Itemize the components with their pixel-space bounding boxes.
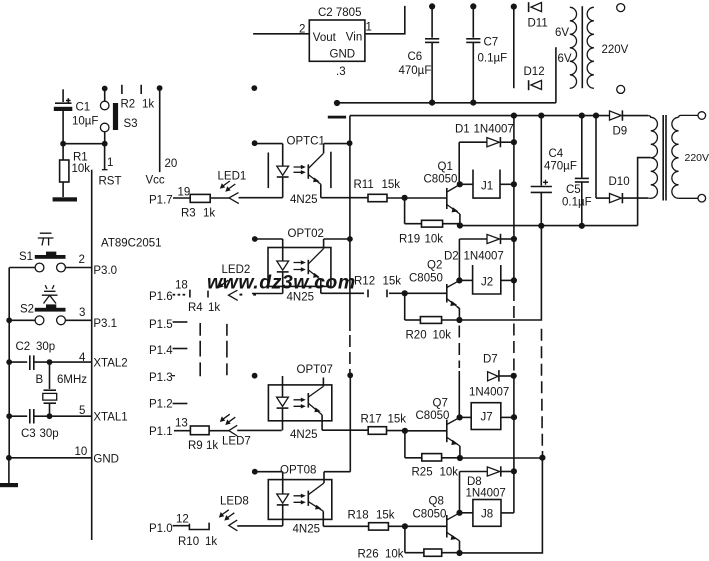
node Q2 emitter rail xyxy=(456,317,462,323)
op-amp IC 7805 regulator xyxy=(299,7,372,78)
svg-text:Vin: Vin xyxy=(346,32,362,44)
capacitor C6 470uF xyxy=(399,6,440,102)
node rail dot x514 xyxy=(511,113,517,119)
diode D7 1N4007 xyxy=(469,354,514,399)
diode D11 xyxy=(528,2,548,29)
svg-text:10k: 10k xyxy=(433,330,452,342)
wire x542 solid down to bottom rail xyxy=(460,458,543,553)
node Q8 collector / J8 left xyxy=(456,510,462,516)
wire bus B dashed middle xyxy=(349,335,351,374)
svg-text:LED1: LED1 xyxy=(218,171,247,183)
LED LED2 xyxy=(218,264,250,300)
svg-text:R12: R12 xyxy=(354,276,375,288)
svg-text:J7: J7 xyxy=(481,412,493,424)
node Q2 collector / J2 left xyxy=(456,277,462,283)
text P1.4 stub xyxy=(149,345,187,357)
resistor R18 15k xyxy=(348,510,405,531)
resistor R26 10k xyxy=(358,526,460,560)
wire P1.6 dotted remnants xyxy=(173,294,186,296)
node Q7 base xyxy=(402,428,408,434)
svg-text:J1: J1 xyxy=(481,181,493,193)
svg-text:1: 1 xyxy=(366,22,372,34)
switch S3 xyxy=(100,89,137,144)
wire base to Q2 xyxy=(405,292,446,294)
node C3 left xyxy=(6,413,12,419)
node OPT02 collector to bus B xyxy=(347,236,353,242)
svg-text:1k: 1k xyxy=(206,440,218,452)
op-amp OPT02 optocoupler 4N25 xyxy=(255,228,364,304)
svg-text:Vcc: Vcc xyxy=(146,175,165,187)
op-amp OPTC1 optocoupler 4N25 xyxy=(255,136,368,207)
svg-text:18: 18 xyxy=(175,280,188,292)
svg-text:R2: R2 xyxy=(121,99,136,111)
wire LED2 to OPT02 xyxy=(252,293,283,295)
svg-text:15k: 15k xyxy=(382,179,401,191)
node crystal top xyxy=(47,359,53,365)
svg-text:P1.6: P1.6 xyxy=(149,291,173,303)
svg-text:C4: C4 xyxy=(549,148,564,160)
wire GND row to MCU pin 10 xyxy=(9,457,92,459)
node Q7 collector / J7 left xyxy=(457,414,463,420)
diode D8 1N4007 xyxy=(460,466,514,499)
node bus dot C6 xyxy=(429,100,435,106)
svg-text:10k: 10k xyxy=(440,467,459,479)
svg-text:www.dz3w.com: www.dz3w.com xyxy=(207,272,356,294)
svg-text:Q8: Q8 xyxy=(429,496,444,508)
svg-text:10: 10 xyxy=(75,446,88,458)
wire row3 ground rail xyxy=(460,457,543,459)
svg-text:R25: R25 xyxy=(412,467,433,479)
svg-text:R18: R18 xyxy=(348,510,369,522)
diode D12 xyxy=(524,66,545,90)
svg-text:C1: C1 xyxy=(76,102,91,114)
svg-text:R10: R10 xyxy=(178,536,199,548)
resistor R10 1k partial body xyxy=(178,523,217,548)
wire Q8 collector riser xyxy=(459,472,461,513)
svg-text:C8050: C8050 xyxy=(409,273,443,285)
wire center tap riser xyxy=(555,47,557,103)
svg-text:4: 4 xyxy=(79,352,86,364)
svg-text:15k: 15k xyxy=(388,414,407,426)
text P1.7 pin 19 xyxy=(149,187,190,207)
svg-text:470µF: 470µF xyxy=(399,65,432,77)
svg-text:4N25: 4N25 xyxy=(287,292,315,304)
svg-text:1k: 1k xyxy=(205,536,217,548)
svg-text:D10: D10 xyxy=(609,176,630,188)
node C2 left xyxy=(6,359,12,365)
node +5V rail dot bus A top xyxy=(251,85,257,91)
svg-text:S2: S2 xyxy=(20,304,34,316)
svg-text:XTAL1: XTAL1 xyxy=(93,412,127,424)
svg-text:5: 5 xyxy=(79,405,85,417)
terminal circle T2 top xyxy=(698,112,706,120)
wire LED7 to OPT07 xyxy=(237,429,282,431)
node D7 cathode xyxy=(511,373,517,379)
wire XTAL1 to MCU xyxy=(50,415,92,417)
relay J7 xyxy=(460,403,514,430)
text Chinese guan (close) above S2 xyxy=(42,285,58,303)
node row3 rail end xyxy=(539,455,545,461)
svg-text:P1.2: P1.2 xyxy=(149,399,173,411)
resistor R12 15k lead ticks xyxy=(354,276,405,298)
wire dashed column x459 middle xyxy=(458,326,460,369)
wire row2 ground rail to C4 column xyxy=(459,226,541,320)
LED LED8 xyxy=(219,496,249,531)
wire T2 center tap xyxy=(638,158,651,226)
svg-text:10k: 10k xyxy=(385,549,404,561)
wire D11 D12 cathode column xyxy=(513,7,515,89)
wire dashed column x541 middle xyxy=(542,329,543,457)
wire P1.1 to R9 xyxy=(174,430,190,432)
wire D1 riser xyxy=(458,142,460,184)
node OPTC1 collector to bus B xyxy=(347,140,353,146)
diode D10 xyxy=(596,176,648,203)
svg-text:19: 19 xyxy=(178,187,191,199)
node OPT07 collector bus B dot xyxy=(347,372,353,378)
node C4 bottom xyxy=(538,223,544,229)
node Q2 base xyxy=(402,290,408,296)
ground below R1 xyxy=(53,197,77,201)
svg-text:4N25: 4N25 xyxy=(290,194,318,206)
wire P1.7 to R3 xyxy=(173,197,190,199)
terminal circle T2 bottom xyxy=(698,194,706,202)
svg-text:10k: 10k xyxy=(72,163,91,175)
svg-text:LED8: LED8 xyxy=(220,496,249,508)
svg-text:D11: D11 xyxy=(528,18,548,30)
node bus A dot row1 xyxy=(252,140,258,146)
resistor R4 1k lead ticks xyxy=(188,290,220,314)
node top rail dot C7 xyxy=(470,3,476,9)
op-amp OPT07 optocoupler 4N25 xyxy=(268,364,368,441)
svg-text:1N4007: 1N4007 xyxy=(469,387,509,399)
svg-text:2: 2 xyxy=(79,254,85,266)
node +5V rail dot Vcc xyxy=(157,85,163,91)
transformer T2 core xyxy=(663,115,666,201)
transformer T1 primary 220V xyxy=(587,7,629,88)
node Q8 emitter rail xyxy=(456,550,462,556)
svg-text:P1.4: P1.4 xyxy=(149,345,173,357)
svg-text:Q1: Q1 xyxy=(438,161,453,173)
svg-text:P1.7: P1.7 xyxy=(149,195,173,207)
svg-text:1k: 1k xyxy=(203,208,215,220)
svg-text:1N4007: 1N4007 xyxy=(466,488,506,500)
wire LED8 to OPT08 xyxy=(237,525,283,527)
svg-text:0.1µF: 0.1µF xyxy=(478,53,508,65)
svg-text:P3.1: P3.1 xyxy=(93,318,117,330)
wire x514 solid D7 to J8 xyxy=(513,376,515,513)
svg-text:.3: .3 xyxy=(336,66,346,78)
svg-text:D1: D1 xyxy=(455,124,470,136)
node RST junction xyxy=(102,141,108,147)
resistor R17 15k xyxy=(361,414,407,435)
wire D10 branch xyxy=(595,116,597,199)
svg-text:P1.5: P1.5 xyxy=(149,319,173,331)
relay J2 xyxy=(459,265,514,294)
op-amp AT89C2051 MCU left edge xyxy=(92,170,162,540)
svg-text:30p: 30p xyxy=(40,428,59,440)
svg-text:P1.1: P1.1 xyxy=(149,426,173,438)
node ground rail Q1 emitter xyxy=(457,222,463,228)
transistor Q7 C8050 xyxy=(416,398,460,459)
svg-text:C5: C5 xyxy=(566,184,581,196)
node J7 right xyxy=(511,414,517,420)
op-amp OPT08 optocoupler 4N25 xyxy=(255,465,369,536)
text P1.3 stub xyxy=(149,372,175,384)
svg-text:15k: 15k xyxy=(383,276,402,288)
svg-text:R9: R9 xyxy=(188,440,203,452)
svg-text:C6: C6 xyxy=(408,51,423,63)
wire 7805 Vout left xyxy=(253,33,309,35)
node bus A dot row4 xyxy=(252,469,258,475)
svg-text:R20: R20 xyxy=(406,330,427,342)
wire dashed vertical column left xyxy=(199,323,201,376)
ground bottom left xyxy=(0,458,18,487)
svg-text:C8050: C8050 xyxy=(416,410,450,422)
svg-text:D9: D9 xyxy=(613,126,628,138)
terminal circle top xyxy=(617,4,625,12)
svg-text:B: B xyxy=(36,374,44,386)
wire RST stub to MCU pin 1 xyxy=(99,144,122,188)
node C5 bottom xyxy=(579,223,585,229)
svg-text:C2 7805: C2 7805 xyxy=(318,7,361,19)
wire Vcc line to MCU pin 20 xyxy=(146,88,178,186)
wire x459 solid to Q7 xyxy=(458,371,460,417)
resistor R19 10k xyxy=(399,198,460,246)
relay J8 xyxy=(460,500,514,527)
crystal B 6MHz xyxy=(36,362,88,416)
svg-text:12: 12 xyxy=(176,514,189,526)
svg-text:D2: D2 xyxy=(444,251,459,263)
capacitor C5 0.1uF xyxy=(562,116,592,226)
transistor Q8 C8050 xyxy=(413,496,460,554)
node +5V rail dot left xyxy=(102,86,108,92)
node rail dot C5 top xyxy=(579,113,585,119)
svg-text:220V: 220V xyxy=(602,44,629,56)
capacitor C7 0.1uF xyxy=(466,6,507,102)
svg-text:AT89C2051: AT89C2051 xyxy=(101,238,162,250)
LED LED1 xyxy=(218,171,247,204)
svg-text:OPTC1: OPTC1 xyxy=(287,136,325,148)
svg-text:10µF: 10µF xyxy=(72,116,98,128)
svg-text:10k: 10k xyxy=(425,234,444,246)
svg-text:3: 3 xyxy=(79,307,85,319)
svg-text:OPT07: OPT07 xyxy=(297,364,333,376)
relay J1 xyxy=(460,170,514,199)
node S2 left xyxy=(6,317,12,323)
svg-text:C2: C2 xyxy=(16,341,31,353)
svg-text:Vout: Vout xyxy=(313,32,337,44)
wire P1.0 to R10 xyxy=(173,525,190,527)
node J2 right xyxy=(511,277,517,283)
transistor Q1 C8050 xyxy=(424,161,460,226)
transformer T2 secondary windings xyxy=(648,116,657,199)
text P1.6 pin 18 xyxy=(149,280,188,304)
svg-text:15k: 15k xyxy=(376,510,395,522)
node bus A dot row3 xyxy=(252,373,258,379)
svg-text:D7: D7 xyxy=(483,354,498,366)
node GND row xyxy=(6,455,12,461)
svg-text:1k: 1k xyxy=(208,302,220,314)
node rail dot C4 top xyxy=(538,113,544,119)
svg-text:P1.3: P1.3 xyxy=(149,372,173,384)
svg-text:R19: R19 xyxy=(399,234,420,246)
wire D2 riser xyxy=(458,239,460,280)
wire LED1 to OPTC1 xyxy=(239,197,283,199)
svg-text:J2: J2 xyxy=(481,277,493,289)
svg-text:OPT02: OPT02 xyxy=(288,228,324,240)
svg-text:1k: 1k xyxy=(142,99,154,111)
svg-text:1N4007: 1N4007 xyxy=(474,124,514,136)
svg-text:GND: GND xyxy=(330,49,356,61)
transformer T1 input 6V windings xyxy=(555,7,577,88)
svg-text:Q2: Q2 xyxy=(427,260,442,272)
node top rail dot D11 column xyxy=(511,4,517,10)
node Q1 base xyxy=(402,195,408,201)
resistor R11 15k xyxy=(354,179,405,202)
svg-text:R11: R11 xyxy=(354,179,374,191)
svg-text:4N25: 4N25 xyxy=(293,524,321,536)
svg-text:S1: S1 xyxy=(19,251,33,263)
svg-text:J8: J8 xyxy=(481,509,493,521)
resistor R20 10k xyxy=(405,293,460,341)
wire +6V rail xyxy=(350,115,610,117)
svg-text:LED7: LED7 xyxy=(222,436,251,448)
diode D9 xyxy=(610,110,649,137)
terminal circle bottom xyxy=(617,85,625,93)
wire R9 to LED7 xyxy=(209,430,229,432)
resistor R1 10k xyxy=(60,144,91,197)
wire left vertical S1-S2-GND xyxy=(8,268,10,458)
diode D1 1N4007 xyxy=(455,124,514,148)
svg-text:C8050: C8050 xyxy=(413,509,447,521)
wire 7805 Vin to riser xyxy=(365,6,405,34)
svg-text:13: 13 xyxy=(175,418,188,430)
svg-text:RST: RST xyxy=(99,176,122,188)
wire dashed column x514 middle xyxy=(513,306,515,371)
transistor Q2 C8050 xyxy=(409,260,459,321)
wire +6V rail bar stub xyxy=(328,116,346,119)
resistor R3 1k xyxy=(181,194,215,219)
capacitor C4 470uF xyxy=(531,116,577,226)
node rail dot D9 branch xyxy=(593,113,599,119)
node J1 right xyxy=(511,181,517,187)
svg-text:470µF: 470µF xyxy=(544,161,577,173)
svg-text:1: 1 xyxy=(107,157,113,169)
text Chinese kai (open) above S1 xyxy=(38,233,54,245)
svg-text:S3: S3 xyxy=(124,118,138,130)
node Q8 base xyxy=(402,523,408,529)
svg-text:R1: R1 xyxy=(73,152,88,164)
diode D2 1N4007 xyxy=(444,234,514,263)
svg-text:C8050: C8050 xyxy=(424,174,458,186)
resistor R25 10k xyxy=(405,431,460,479)
svg-text:Q7: Q7 xyxy=(433,398,448,410)
svg-text:4N25: 4N25 xyxy=(290,429,318,441)
svg-text:1N4007: 1N4007 xyxy=(464,251,504,263)
svg-text:220V: 220V xyxy=(685,152,709,164)
svg-text:0.1µF: 0.1µF xyxy=(562,197,592,209)
node D2 cathode xyxy=(511,236,517,242)
wire R3 to LED1 xyxy=(210,197,229,199)
node D1 cathode xyxy=(511,139,517,145)
wire bus B solid upper xyxy=(349,116,351,331)
wire ground rail row1 xyxy=(460,225,638,227)
node bus A dot row2 xyxy=(252,236,258,242)
node D8 cathode xyxy=(511,468,517,474)
capacitor C2 30p xyxy=(9,341,92,370)
svg-text:C3: C3 xyxy=(21,428,36,440)
svg-text:D12: D12 xyxy=(524,66,545,78)
svg-text:30p: 30p xyxy=(36,341,55,353)
svg-text:R3: R3 xyxy=(181,208,196,220)
svg-text:XTAL2: XTAL2 xyxy=(93,358,127,370)
svg-text:6V: 6V xyxy=(558,53,572,65)
svg-text:C7: C7 xyxy=(484,37,499,49)
capacitor C1 10uF xyxy=(54,89,99,143)
resistor R9 1k xyxy=(188,426,218,452)
wire T2 primary leads xyxy=(679,115,699,198)
svg-text:D8: D8 xyxy=(467,476,482,488)
wire GND bus xyxy=(337,102,556,104)
text P1.2 stub xyxy=(149,399,187,411)
svg-text:OPT08: OPT08 xyxy=(280,465,316,477)
node top rail dot C6 xyxy=(429,3,435,9)
wire relay column x514 upper xyxy=(513,116,515,301)
node C1/R1 junction xyxy=(60,141,66,147)
node Q1 collector / J1 left xyxy=(457,181,463,187)
node crystal bottom xyxy=(47,413,53,419)
svg-text:GND: GND xyxy=(93,454,119,466)
node GND bus left xyxy=(334,100,340,106)
wire C1 to RST node xyxy=(63,143,105,145)
svg-text:20: 20 xyxy=(165,158,178,170)
svg-text:R17: R17 xyxy=(361,414,382,426)
resistor R2 1k lead stubs xyxy=(121,85,155,111)
wire LED2 remnant dots xyxy=(240,294,257,296)
text P1.1 pin 13 xyxy=(149,418,188,439)
svg-text:R26: R26 xyxy=(358,549,379,561)
text P1.0 pin 12 xyxy=(149,514,189,536)
wire base to Q8 xyxy=(405,525,446,527)
switch S1 xyxy=(9,251,92,272)
svg-text:P3.0: P3.0 xyxy=(93,265,117,277)
capacitor C3 30p xyxy=(9,409,58,440)
switch S2 xyxy=(9,304,92,325)
wire dashed vertical column right xyxy=(226,324,228,375)
wire base to Q7 xyxy=(405,430,446,432)
svg-text:P1.0: P1.0 xyxy=(149,523,173,535)
node bus dot C7 xyxy=(470,100,476,106)
wire base to Q1 xyxy=(405,197,446,199)
LED LED7 xyxy=(220,414,251,447)
wire bus B solid lower xyxy=(349,375,351,471)
svg-text:R4: R4 xyxy=(188,302,203,314)
transformer T1 core xyxy=(581,6,583,88)
svg-text:6V: 6V xyxy=(555,27,569,39)
transformer T2 primary 220V xyxy=(672,117,709,198)
svg-text:6MHz: 6MHz xyxy=(57,374,87,386)
node Q7 emitter rail xyxy=(457,455,463,461)
text P1.5 stub xyxy=(149,319,187,331)
